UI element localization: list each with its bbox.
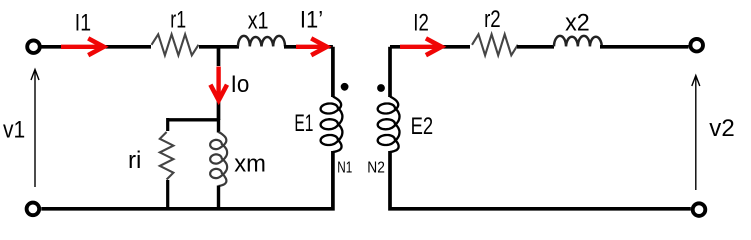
svg-text:x2: x2 xyxy=(565,10,590,37)
svg-text:ri: ri xyxy=(128,147,141,174)
voltage arrow v1 xyxy=(31,70,39,188)
polarity dot primary xyxy=(341,83,349,91)
svg-text:N1: N1 xyxy=(337,159,352,176)
terminal top-left xyxy=(27,40,40,53)
svg-text:x1: x1 xyxy=(248,7,269,34)
current arrow I1' xyxy=(296,38,327,55)
current arrow Io xyxy=(210,67,227,101)
wire primary bottom to rail and bottom rail xyxy=(41,151,333,209)
svg-text:E2: E2 xyxy=(411,113,434,140)
wire secondary top to r2 xyxy=(390,45,470,49)
voltage arrow v2 xyxy=(692,76,700,191)
inductor xm xyxy=(217,119,220,133)
wire r1 to x1 xyxy=(199,45,239,49)
wire x1 to transformer primary corner xyxy=(284,47,333,97)
svg-text:v2: v2 xyxy=(709,115,734,142)
terminal top-right xyxy=(690,39,703,52)
resistor r1 xyxy=(152,34,199,55)
svg-text:Io: Io xyxy=(231,71,250,98)
inductor x1 xyxy=(238,36,285,47)
svg-text:r2: r2 xyxy=(484,6,501,33)
wire top-left terminal to r1 xyxy=(41,45,151,49)
terminal bottom-left xyxy=(27,203,40,216)
wire node to shunt branch xyxy=(217,47,221,120)
svg-text:N2: N2 xyxy=(367,159,385,176)
current arrow I2 xyxy=(400,38,442,55)
wire x2 to top-right terminal xyxy=(600,45,689,49)
wire secondary top stub xyxy=(388,47,392,97)
svg-text:I1: I1 xyxy=(75,9,91,36)
polarity dot secondary xyxy=(377,84,385,92)
wire secondary bottom to rail and bottom-right rail xyxy=(390,151,691,209)
wire r2 to x2 xyxy=(517,45,554,49)
resistor r2 xyxy=(472,34,518,55)
shunt connector wire xyxy=(168,118,219,121)
terminal bottom-right xyxy=(693,203,706,216)
transformer secondary winding E2 xyxy=(378,97,400,153)
svg-text:I1’: I1’ xyxy=(300,7,323,34)
svg-text:r1: r1 xyxy=(170,7,186,34)
svg-text:v1: v1 xyxy=(3,117,25,144)
current arrow I1 xyxy=(61,38,104,55)
svg-text:xm: xm xyxy=(234,151,266,178)
inductor x2 xyxy=(554,36,602,47)
svg-text:I2: I2 xyxy=(413,10,429,37)
svg-text:E1: E1 xyxy=(294,110,313,137)
resistor ri xyxy=(166,118,169,131)
transformer primary winding E1 xyxy=(321,97,343,153)
